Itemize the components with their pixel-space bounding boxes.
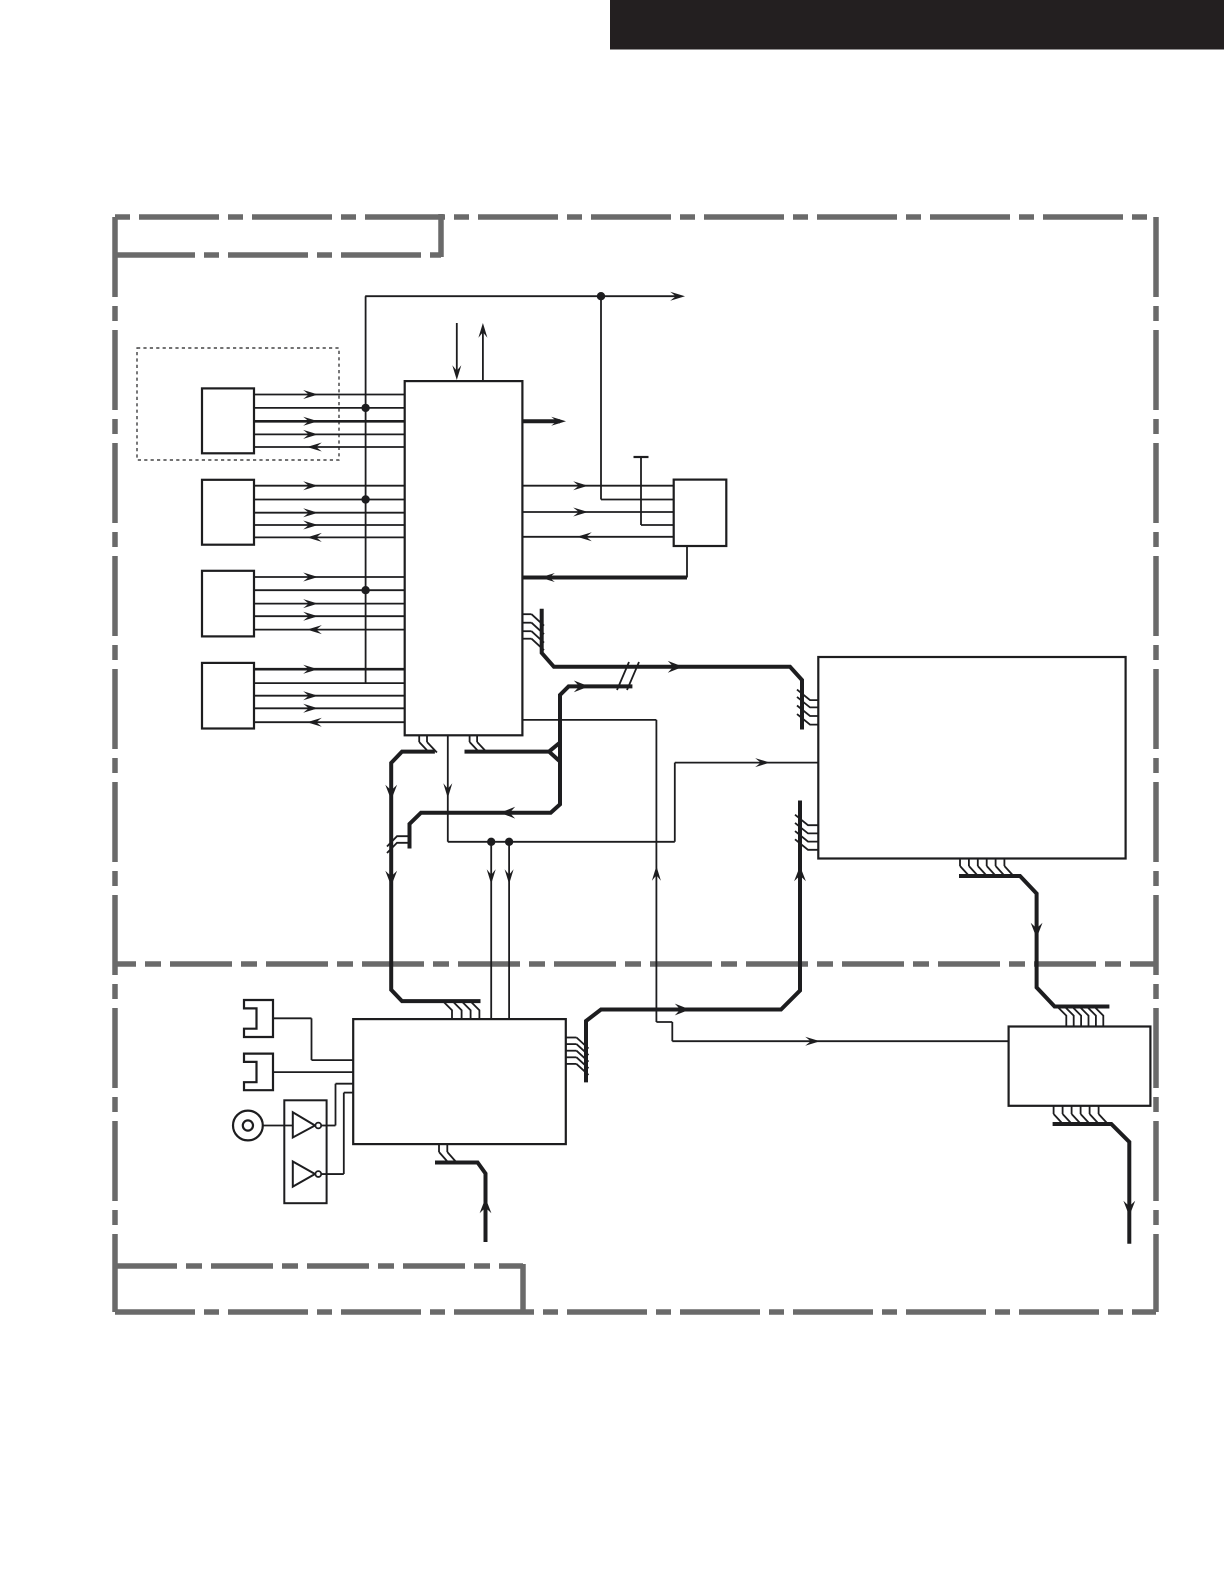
wire U2 to U1 (return) bbox=[522, 532, 673, 541]
dotted enclosure around sensor box B1 bbox=[137, 348, 339, 460]
net2 wire bbox=[522, 720, 1008, 1041]
wires box B4 to U1 bbox=[254, 665, 405, 727]
top-left tab connector bbox=[438, 214, 444, 257]
wire U1 to U2 pin1 bbox=[522, 481, 673, 490]
phono jack J3 bbox=[233, 1111, 263, 1141]
frame bottom edge bbox=[115, 1309, 1156, 1315]
inverter G2 output wire bbox=[321, 1093, 353, 1174]
main control IC U1 bbox=[405, 381, 523, 735]
bus B taps into U4 top bbox=[443, 1001, 480, 1019]
bus A flow arrow bbox=[668, 661, 683, 673]
thick return wire into U1 (y=577) bbox=[522, 573, 687, 582]
phono jack wire bbox=[263, 1125, 293, 1127]
wires box B3 to U1 bbox=[254, 573, 405, 635]
frame top edge bbox=[115, 214, 1156, 220]
inverter G1 bbox=[293, 1112, 321, 1137]
section divider bbox=[115, 961, 1156, 967]
DSP block U3 bbox=[818, 657, 1125, 859]
S3 trunk bbox=[435, 1163, 486, 1243]
top-left label tab line bbox=[115, 252, 441, 258]
node dot on W1 bbox=[597, 292, 605, 300]
connector jack J2 bbox=[244, 1054, 273, 1091]
bus riser to S2 bbox=[560, 686, 632, 766]
stub output arrow from U1 top bbox=[478, 323, 487, 381]
bus C trunk bbox=[959, 876, 1109, 1007]
thick output arrow U1 right (y=421) bbox=[522, 417, 566, 426]
tuner box U2 bbox=[674, 480, 727, 546]
inverter box U6 bbox=[284, 1100, 326, 1203]
wire X2 (branch from node to U2) bbox=[601, 296, 674, 499]
net2 right arrow bbox=[805, 1037, 820, 1046]
wire X1 (vertical common line to boxes) bbox=[365, 296, 367, 683]
bus2 trunk bbox=[586, 801, 800, 1083]
net1 right arrow bbox=[755, 758, 770, 767]
sensor box B1 bbox=[202, 388, 254, 453]
bus A taps into U3 bbox=[797, 690, 818, 725]
bus C taps into U5 top bbox=[1057, 1006, 1103, 1026]
bus2 right arrow bbox=[675, 1004, 690, 1016]
bus2 taps into U3 bbox=[795, 815, 818, 850]
bus group2 horizontal bbox=[465, 750, 549, 754]
junction dots B2 line2 bbox=[361, 495, 369, 503]
bottom-left tab connector bbox=[520, 1264, 526, 1314]
wires box B1 to U1 bbox=[254, 390, 405, 452]
bus D pin taps from U5 bbox=[1054, 1106, 1109, 1125]
bus D trunk bbox=[1053, 1124, 1130, 1244]
bus B flow arrow 1 bbox=[385, 785, 397, 800]
U1 bottom pins group2 taps bbox=[470, 735, 487, 752]
stub input arrow into U1 top bbox=[452, 323, 461, 380]
bus C pin taps from U3 bbox=[960, 859, 1014, 877]
connector jack J2 wire bbox=[273, 1071, 353, 1073]
bus Y-junction bbox=[549, 743, 560, 762]
junction dots B3 line2 bbox=[361, 586, 369, 594]
net1 down arrow bbox=[443, 783, 452, 798]
wire U2 bottom to thick return bbox=[686, 546, 688, 578]
frame right edge bbox=[1153, 217, 1159, 1312]
wire U1 to U2 pin3 bbox=[522, 508, 673, 517]
bus2 pin taps from U4 bbox=[566, 1038, 589, 1075]
bus D down arrow bbox=[1123, 1201, 1135, 1216]
wire W1 (top horizontal net) bbox=[365, 292, 685, 301]
junction dots B1 line2 bbox=[361, 404, 369, 412]
bus A trunk bbox=[542, 609, 802, 730]
connector jack J1 wire bbox=[273, 1018, 353, 1060]
net1 branch wires to U4 top bbox=[491, 842, 509, 1019]
two-wire merge slashes into bus A bbox=[617, 662, 639, 690]
bus C down arrow bbox=[1031, 923, 1043, 938]
stub taps into bus B bbox=[387, 836, 409, 853]
net1 branch dots bbox=[487, 838, 513, 846]
bus B trunk bbox=[391, 752, 480, 1002]
audio block U4 bbox=[353, 1019, 566, 1144]
sensor box B3 bbox=[202, 571, 254, 637]
net1 wire bbox=[448, 735, 819, 842]
antenna T symbol bbox=[634, 457, 674, 525]
U1 bottom pins group1 taps bbox=[419, 735, 437, 752]
S2 flow arrow bbox=[574, 681, 589, 693]
bus2 up arrow bbox=[794, 866, 806, 881]
lower branch flow arrow bbox=[500, 807, 515, 819]
sensor box B4 bbox=[202, 663, 254, 729]
bus lower branch to stub bbox=[410, 763, 561, 849]
net1 branch arrows bbox=[487, 869, 514, 884]
bus B flow arrow 2 bbox=[385, 871, 397, 886]
sensor box B2 bbox=[202, 480, 254, 545]
inverter G2 bbox=[293, 1162, 321, 1187]
bus A pin taps from U1 bbox=[522, 614, 544, 650]
S3 up arrow bbox=[480, 1198, 492, 1213]
inverter G1 output wire bbox=[321, 1084, 353, 1126]
bottom-left label tab line bbox=[115, 1263, 523, 1269]
frame left edge bbox=[112, 217, 118, 1312]
net2 up arrow bbox=[652, 866, 661, 881]
connector jack J1 bbox=[244, 1000, 273, 1037]
header title bar bbox=[610, 0, 1224, 50]
S3 pin taps into U4 bottom bbox=[439, 1144, 457, 1163]
wires box B2 to U1 bbox=[254, 481, 405, 542]
output block U5 bbox=[1009, 1027, 1151, 1106]
